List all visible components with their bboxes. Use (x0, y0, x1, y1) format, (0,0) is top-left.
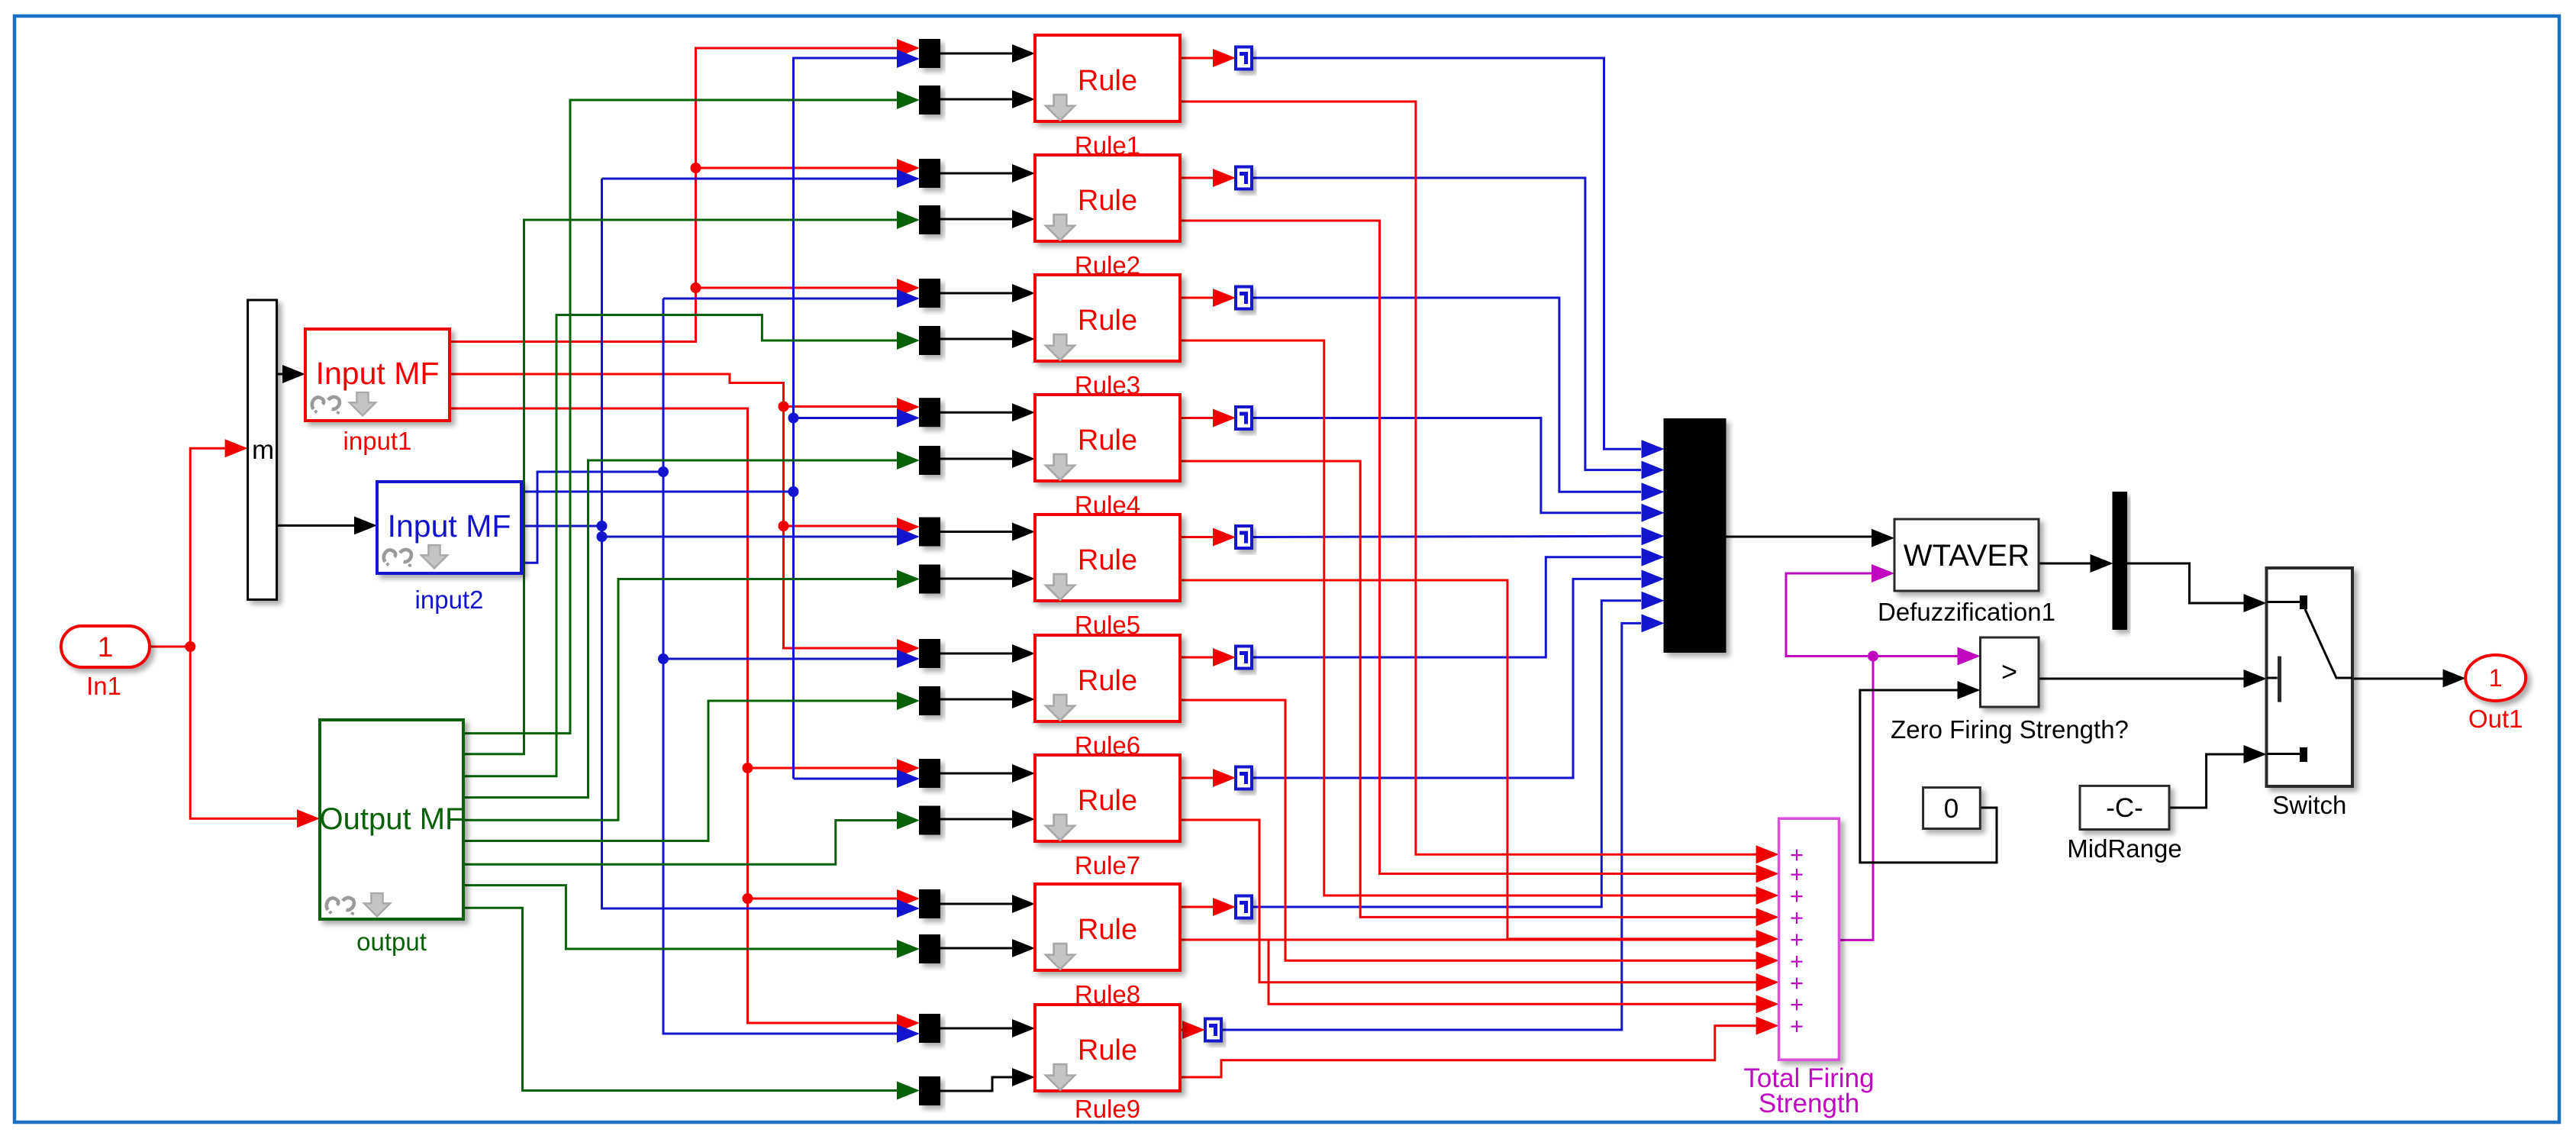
wire Rule2 out2 to Total Firing Strength (red) (1180, 221, 1779, 883)
mux Rule3 consequent (black) (920, 327, 940, 354)
wire output port4 to rule4 (green) (463, 451, 920, 798)
wire Rule1 out2 to Total Firing Strength (red) (1180, 102, 1779, 863)
rule block Rule8 (1035, 884, 1180, 1008)
wire muxes to Rule4 inputs (black) (940, 403, 1035, 468)
wire Rule2 converter to Mux (blue) (1252, 178, 1665, 479)
wire In1 to junction (red) (150, 641, 195, 652)
wire muxes to Rule5 inputs (black) (940, 523, 1035, 589)
inport In1 (61, 626, 150, 700)
wire muxes to Rule9 inputs (black) (940, 1019, 1035, 1091)
wire Rule4 converter to Mux (blue) (1252, 418, 1665, 522)
wire Zero constant to comparator input2 (black) (1860, 681, 1997, 863)
mux Rule8 consequent (black) (920, 935, 940, 963)
svg-text:+: + (1790, 1013, 1804, 1040)
constant 0 (1923, 788, 1981, 829)
wire input2 port3 channel to rules 3,6,9 (blue) (521, 289, 920, 1043)
converter block after Rule8 (blue) (1236, 896, 1252, 918)
wire Rule6 out2 to Total Firing Strength (red) (1180, 700, 1779, 970)
wire Demux m to input1 block (black) (277, 365, 305, 383)
svg-text:MidRange: MidRange (2067, 834, 2181, 863)
rule block Rule1 (1035, 35, 1180, 160)
mux Rule6 consequent (black) (920, 687, 940, 715)
mux Rule1 consequent (black) (920, 86, 940, 114)
wire Rule5 out1 to converter (red) (1180, 528, 1236, 547)
svg-text:Defuzzification1: Defuzzification1 (1878, 598, 2055, 626)
wire Rule3 converter to Mux (blue) (1252, 298, 1665, 501)
rule block Rule3 (1035, 275, 1180, 399)
converter block after Rule4 (blue) (1236, 407, 1252, 429)
svg-text:Strength: Strength (1759, 1089, 1859, 1118)
svg-text:Output MF: Output MF (320, 802, 464, 836)
mux Rule6 antecedent (black) (920, 640, 940, 667)
wire output port9 to rule9 (green) (463, 908, 920, 1099)
wire output port7 to rule7 (green) (463, 811, 920, 865)
outport Out1 (2465, 655, 2526, 733)
svg-text:-C-: -C- (2106, 793, 2143, 823)
rule block Rule6 (1035, 635, 1180, 760)
wire junction down to Output MF (red) (190, 647, 320, 828)
mux Rule3 antecedent (black) (920, 279, 940, 307)
svg-text:Input MF: Input MF (316, 356, 440, 391)
wire junction up to Demux m (red) (190, 439, 247, 647)
wire muxes to Rule7 inputs (black) (940, 764, 1035, 828)
wire Rule1 converter to Mux (blue) (1252, 58, 1665, 458)
svg-text:Rule: Rule (1078, 914, 1137, 946)
wire input2 port2 channel to rules 2,5,8 (blue) (521, 169, 920, 918)
mux Rule9 antecedent (black) (920, 1015, 940, 1042)
rule block Rule5 (1035, 515, 1180, 639)
svg-text:output: output (356, 928, 427, 956)
converter block after Rule5 (blue) (1236, 526, 1252, 548)
wire Rule7 out1 to converter (red) (1180, 769, 1236, 787)
svg-text:input1: input1 (343, 427, 412, 455)
wire muxes to Rule6 inputs (black) (940, 644, 1035, 708)
wire Mux to Defuzzification1 (black) (1726, 529, 1895, 547)
wire Rule4 out2 to Total Firing Strength (red) (1180, 461, 1779, 926)
wire muxes to Rule1 inputs (black) (940, 44, 1035, 108)
wire Rule2 out1 to converter (red) (1180, 169, 1236, 187)
wire Rule3 out1 to converter (red) (1180, 289, 1236, 307)
svg-text:Rule: Rule (1078, 1034, 1137, 1066)
mux Rule2 consequent (black) (920, 206, 940, 234)
svg-text:>: > (2001, 656, 2017, 687)
svg-text:In1: In1 (86, 672, 121, 700)
selector bar (black) (2113, 492, 2127, 629)
wire Rule6 converter to Mux (blue) (1252, 548, 1665, 657)
mux Rule2 antecedent (black) (920, 160, 940, 187)
mux Rule5 consequent (black) (920, 566, 940, 593)
mux Rule7 consequent (black) (920, 807, 940, 834)
wire output port5 to rule5 (green) (463, 570, 920, 821)
wire MidRange to Switch input3 (black) (2169, 745, 2267, 808)
wire output port1 to rule1 (green) (463, 91, 920, 734)
wire Rule1 out1 to converter (red) (1180, 49, 1236, 67)
wire input1 port1 channel to rules 1-3 (red) (450, 39, 920, 342)
wire Rule8 out2 to Total Firing Strength (red) (1180, 940, 1779, 1013)
wire Rule4 out1 to converter (red) (1180, 409, 1236, 428)
mux Rule7 antecedent (black) (920, 760, 940, 787)
svg-text:input2: input2 (415, 586, 484, 614)
wire input1 port2 channel to rules 4-6 (red) (450, 374, 920, 657)
rule block Rule2 (1035, 155, 1180, 279)
wire muxes to Rule8 inputs (black) (940, 895, 1035, 957)
mux Rule1 antecedent (black) (920, 40, 940, 67)
mux Rule5 antecedent (black) (920, 518, 940, 546)
wire Total Firing Strength to comparator and WTAVER (magenta) (1786, 564, 1981, 940)
svg-text:Rule: Rule (1078, 785, 1137, 817)
constant MidRange (-C-) (2067, 786, 2181, 863)
wire comparator to Switch input2 (black) (2039, 670, 2267, 688)
wire Rule9 converter to Mux (blue) (1222, 614, 1665, 1030)
svg-text:1: 1 (2489, 664, 2503, 692)
converter block after Rule1 (blue) (1236, 47, 1252, 69)
wire Rule6 out1 to converter (red) (1180, 648, 1236, 666)
mux Rule8 antecedent (black) (920, 890, 940, 918)
subsystem input1 (Input MF) (305, 329, 450, 455)
wire Rule5 converter to Mux (blue) (1252, 527, 1665, 545)
demux bar (m) (248, 300, 277, 599)
wire Defuzzification1 to selector bar (black) (2039, 554, 2113, 573)
wire Rule8 out1 to converter (red) (1180, 898, 1236, 916)
subsystem input2 (Input MF) (377, 482, 521, 614)
wire Demux m to input2 block (black) (277, 516, 377, 534)
svg-text:Rule: Rule (1078, 424, 1137, 457)
svg-text:Zero Firing Strength?: Zero Firing Strength? (1891, 715, 2129, 744)
svg-text:Rule: Rule (1078, 544, 1137, 576)
svg-text:1: 1 (98, 631, 114, 663)
converter block after Rule3 (blue) (1236, 287, 1252, 309)
converter block after Rule7 (blue) (1236, 767, 1252, 789)
svg-text:Out1: Out1 (2468, 705, 2523, 733)
svg-text:Rule: Rule (1078, 185, 1137, 217)
svg-text:Input MF: Input MF (388, 508, 511, 544)
rule block Rule4 (1035, 395, 1180, 519)
wire muxes to Rule3 inputs (black) (940, 284, 1035, 348)
svg-text:Rule7: Rule7 (1075, 851, 1140, 879)
svg-text:m: m (252, 435, 274, 465)
wire input2 port1 channel to rules 1,4,7 (blue) (521, 50, 920, 788)
wire Rule7 converter to Mux (blue) (1252, 569, 1665, 778)
wire Rule9 out2 to Total Firing Strength (red) (1181, 1017, 1779, 1077)
block Zero Firing Strength? (&gt;) (1891, 637, 2129, 744)
block Defuzzification1 (WTAVER) (1878, 519, 2055, 626)
wire Rule8 converter to Mux (blue) (1252, 592, 1665, 907)
converter block after Rule6 (blue) (1236, 647, 1252, 669)
wire Rule3 out2 to Total Firing Strength (red) (1180, 340, 1779, 905)
sum block Total Firing Strength (1743, 818, 1874, 1118)
wire Rule7 out2 to Total Firing Strength (red) (1180, 820, 1779, 992)
block Switch (2267, 568, 2353, 819)
wire Rule5 out2 to Total Firing Strength (red) (1180, 580, 1779, 948)
svg-text:Rule: Rule (1078, 65, 1137, 97)
converter block after Rule9 (blue) (1205, 1019, 1221, 1041)
rule block Rule7 (1035, 755, 1180, 879)
wire output port8 to rule8 (green) (463, 886, 920, 958)
wire output port3 to rule3 (green) (463, 315, 920, 776)
svg-text:Rule: Rule (1078, 665, 1137, 697)
subsystem output (Output MF) (320, 720, 464, 956)
wire Switch to Out1 (black) (2352, 670, 2466, 688)
svg-text:Rule9: Rule9 (1075, 1095, 1140, 1123)
mux Rule9 consequent (black) (920, 1077, 940, 1105)
svg-text:Rule: Rule (1078, 305, 1137, 337)
wire muxes to Rule2 inputs (black) (940, 164, 1035, 228)
mux 9-to-1 (black bar) (1665, 419, 1726, 652)
mux Rule4 consequent (black) (920, 447, 940, 474)
converter block after Rule2 (blue) (1236, 167, 1252, 189)
wire input1 port3 channel to rules 7-9 (red) (450, 408, 920, 1032)
svg-text:0: 0 (1944, 794, 1959, 824)
rule block Rule9 (1035, 1005, 1180, 1123)
mux Rule4 antecedent (black) (920, 398, 940, 426)
wire output port6 to rule6 (green) (463, 692, 920, 841)
wire output port2 to rule2 (green) (463, 211, 920, 754)
wire Rule9 out1 to converter (red) (1180, 1021, 1205, 1039)
svg-text:Switch: Switch (2272, 791, 2346, 819)
wire selector bar to Switch input1 (black) (2126, 563, 2267, 612)
svg-text:WTAVER: WTAVER (1904, 539, 2030, 573)
